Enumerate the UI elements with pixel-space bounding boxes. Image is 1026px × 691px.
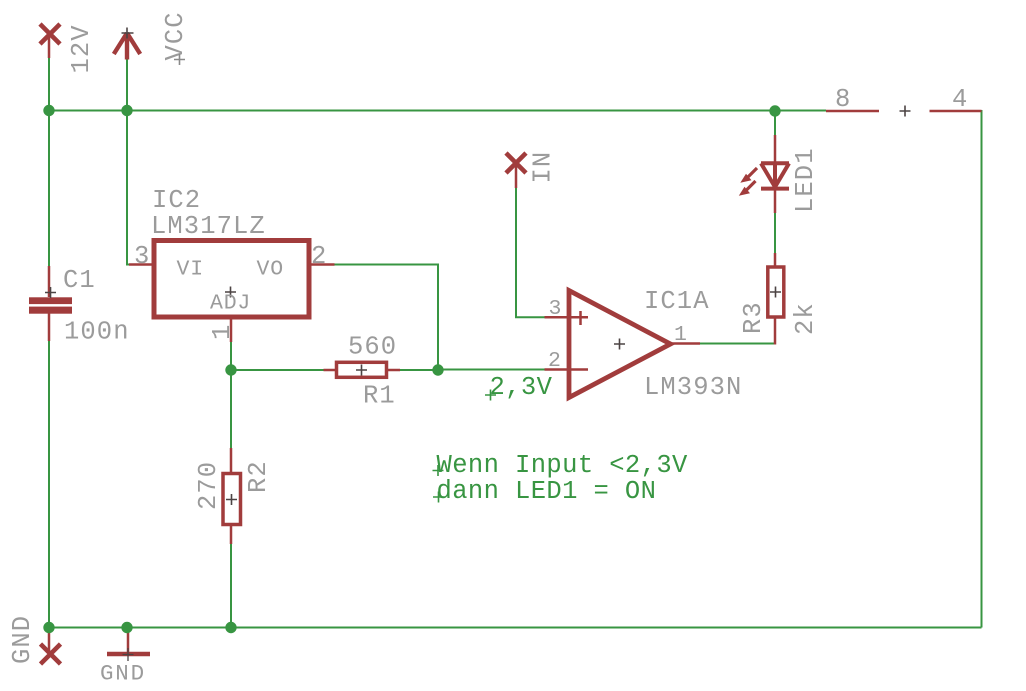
pin R2 top stub xyxy=(230,448,233,474)
pin R1 left stub xyxy=(324,369,337,372)
svg-text:R1: R1 xyxy=(363,382,396,411)
svg-text:1: 1 xyxy=(674,323,688,347)
origin cross VCC label xyxy=(174,54,185,65)
pin opamp inverting input xyxy=(545,368,589,371)
pin LED anode stub xyxy=(774,135,777,163)
svg-text:dann LED1 = ON: dann LED1 = ON xyxy=(437,477,657,506)
wire VCC vertical xyxy=(127,59,131,265)
pin R1 right stub xyxy=(387,369,400,372)
origin cross note line 2 xyxy=(433,492,444,503)
svg-text:1: 1 xyxy=(208,324,237,340)
svg-text:R2: R2 xyxy=(244,460,273,493)
wire junction to R2 top xyxy=(230,370,232,449)
resistor R2 body xyxy=(223,474,241,525)
wire top horizontal net VCC xyxy=(49,110,826,112)
svg-text:IN: IN xyxy=(529,151,558,184)
pin LED cathode stub xyxy=(774,189,777,213)
wire IN flag to opamp pin 3 xyxy=(516,187,545,317)
junction bottom R2 xyxy=(225,622,236,633)
pin opamp noninverting input with plus marker xyxy=(545,311,589,325)
pin IC2 VO stub xyxy=(312,263,335,266)
svg-text:8: 8 xyxy=(835,85,851,114)
pin GND supply bar stub xyxy=(127,628,130,652)
junction top LED xyxy=(769,105,780,116)
svg-text:R3: R3 xyxy=(739,301,768,334)
svg-text:2: 2 xyxy=(548,349,562,373)
origin cross VCC arrow tip xyxy=(122,28,134,39)
origin cross note line 1 xyxy=(433,465,444,476)
pin IC2 ADJ stub xyxy=(230,320,233,343)
pin C1 top stub xyxy=(48,266,51,297)
origin cross GND bar xyxy=(123,648,134,661)
resistor R1 body xyxy=(337,362,387,377)
svg-text:2: 2 xyxy=(311,242,327,271)
input flag IN X symbol xyxy=(506,153,526,173)
svg-text:IC1A: IC1A xyxy=(644,287,710,316)
svg-text:100n: 100n xyxy=(64,318,130,347)
wire junction to opamp pin 2 xyxy=(438,369,545,371)
origin cross R2 xyxy=(226,494,237,505)
junction top left xyxy=(43,105,54,116)
wire R1 right to junction xyxy=(399,369,438,371)
pin C1 bottom stub xyxy=(48,314,51,342)
junction bottom left xyxy=(43,622,54,633)
svg-text:12V: 12V xyxy=(67,24,96,73)
svg-text:3: 3 xyxy=(134,242,150,271)
svg-text:Wenn Input <2,3V: Wenn Input <2,3V xyxy=(437,451,689,480)
wire IC2 VO to R1 right junction xyxy=(335,265,439,371)
svg-text:ADJ: ADJ xyxy=(210,292,251,316)
svg-text:GND: GND xyxy=(8,615,37,664)
origin cross IC1A xyxy=(614,339,625,350)
pin IC1 power P4 stub xyxy=(930,110,982,113)
origin cross R1 xyxy=(356,365,367,376)
ground supply bar symbol xyxy=(107,652,150,656)
svg-text:LM317LZ: LM317LZ xyxy=(151,212,266,241)
svg-text:VCC: VCC xyxy=(161,11,190,60)
svg-text:270: 270 xyxy=(194,461,223,510)
diode LED1 symbol xyxy=(761,163,789,189)
svg-text:VO: VO xyxy=(257,258,284,282)
wire ADJ to junction xyxy=(230,342,232,371)
op-amp IC1A triangle xyxy=(569,291,671,398)
supply symbol VCC arrow xyxy=(114,33,140,60)
junction bottom GND xyxy=(121,622,132,633)
wire left vertical upper (12V to C1) xyxy=(48,58,50,267)
svg-text:560: 560 xyxy=(348,333,397,362)
capacitor C1 plates xyxy=(29,297,72,304)
origin cross IC1 power xyxy=(900,106,911,117)
junction R1 right xyxy=(432,364,443,375)
wire right vertical net xyxy=(981,110,983,628)
origin cross R3 xyxy=(770,287,781,298)
svg-text:VI: VI xyxy=(177,258,204,282)
wire left vertical lower (C1 to GND) xyxy=(48,340,50,628)
pin R3 top stub xyxy=(774,253,777,267)
svg-text:LM393N: LM393N xyxy=(644,373,742,402)
svg-text:4: 4 xyxy=(952,85,968,114)
pin R2 bottom stub xyxy=(230,525,233,544)
wire junction to R1 left xyxy=(231,369,324,371)
resistor R3 body xyxy=(768,267,784,317)
svg-text:2k: 2k xyxy=(791,302,820,335)
wire opamp output to R3 bottom xyxy=(700,343,775,345)
origin cross C1 xyxy=(45,287,56,298)
ground supply X symbol xyxy=(41,644,61,664)
wire LED cathode to R3 top xyxy=(774,212,776,254)
pin IC1 power P8 stub xyxy=(826,110,879,113)
junction top VCC xyxy=(121,105,132,116)
pin opamp output stub xyxy=(670,342,700,345)
svg-text:GND: GND xyxy=(100,661,146,687)
LED1 emission arrow 1 xyxy=(748,168,758,178)
pin IN flag stub xyxy=(515,165,518,188)
svg-text:C1: C1 xyxy=(63,266,96,295)
origin cross IC2 xyxy=(225,287,236,298)
junction ADJ/R1/R2 xyxy=(225,364,236,375)
svg-text:2,3V: 2,3V xyxy=(490,373,553,402)
pin GND supply X stub xyxy=(48,630,51,653)
origin cross 2,3V xyxy=(485,390,496,401)
wire bottom horizontal net GND xyxy=(48,627,982,629)
svg-text:3: 3 xyxy=(549,297,563,321)
pin IC2 VI stub xyxy=(129,263,152,266)
supply symbol +12V X xyxy=(40,24,60,44)
svg-text:IC2: IC2 xyxy=(152,186,201,215)
voltage regulator IC2 body xyxy=(154,241,309,318)
svg-text:LED1: LED1 xyxy=(791,147,820,213)
LED1 emission arrow 2 xyxy=(746,181,756,191)
wire junction to LED anode xyxy=(774,111,776,137)
pin 12V supply stub xyxy=(48,36,51,58)
wire R2 bottom to GND net xyxy=(230,543,232,628)
pin R3 bottom stub xyxy=(774,318,777,345)
